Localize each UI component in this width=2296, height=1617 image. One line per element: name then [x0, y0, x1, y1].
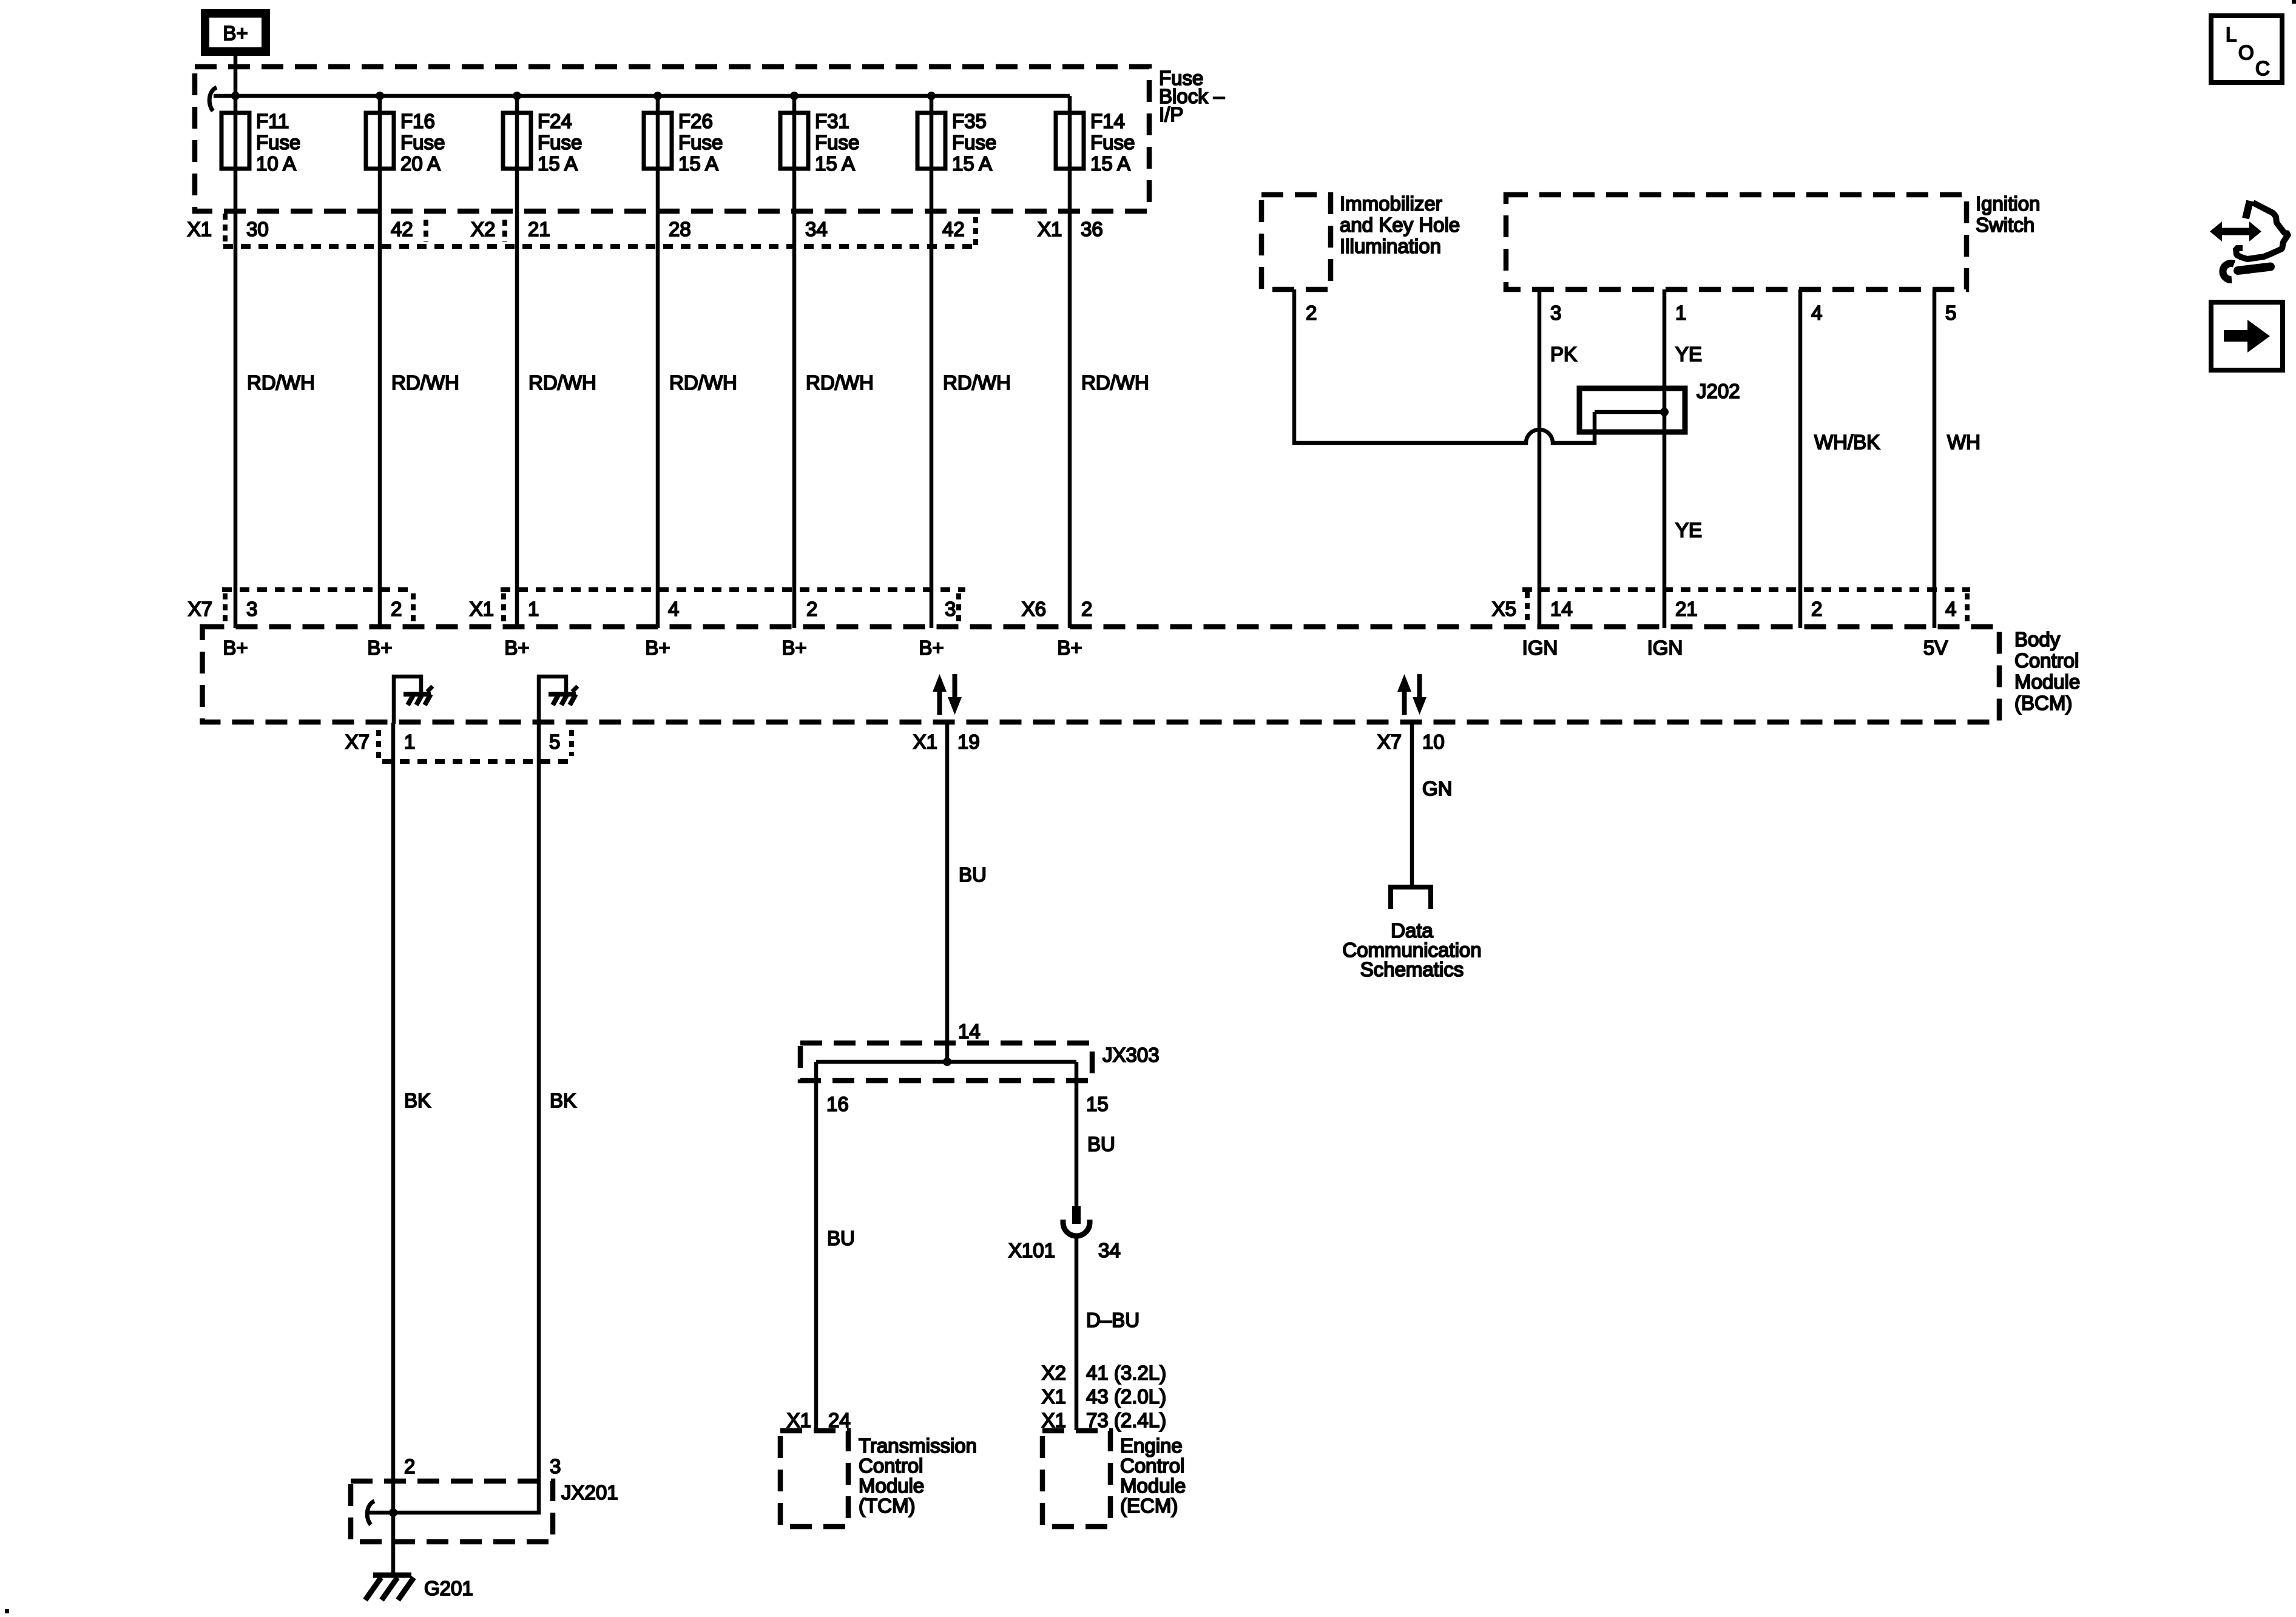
wire WH/BK ignition pin4 to BCM X5-2	[1798, 289, 1803, 628]
fuse F26 15 A	[644, 113, 672, 169]
svg-text:O: O	[2238, 41, 2254, 64]
svg-text:30: 30	[246, 218, 269, 240]
svg-text:15: 15	[1086, 1093, 1109, 1115]
bidirectional arrows at X1 pin19	[937, 690, 942, 715]
page artifact dots	[2292, 0, 2296, 4]
svg-text:Module: Module	[2014, 670, 2080, 693]
svg-text:B+: B+	[223, 22, 248, 44]
svg-text:WH: WH	[1947, 431, 1980, 453]
fuse F35 15 A	[917, 113, 945, 169]
svg-text:X2: X2	[1042, 1362, 1066, 1384]
svg-text:Control: Control	[1120, 1454, 1184, 1477]
svg-text:BU: BU	[959, 863, 987, 886]
svg-text:RD/WH: RD/WH	[247, 371, 315, 394]
svg-text:F11: F11	[256, 110, 289, 132]
wire B+ drop to bus	[234, 56, 238, 96]
svg-text:IGN: IGN	[1522, 636, 1558, 659]
svg-text:3: 3	[945, 598, 956, 620]
svg-text:Fuse: Fuse	[400, 131, 445, 154]
svg-text:X1: X1	[913, 731, 937, 753]
svg-text:B+: B+	[919, 636, 944, 659]
svg-text:B+: B+	[782, 636, 806, 659]
svg-text:36: 36	[1081, 218, 1103, 240]
svg-text:10 A: 10 A	[256, 152, 296, 175]
wire B+ bus	[214, 94, 1070, 98]
wire immobilizer pin2 down	[1292, 289, 1297, 445]
ground G201	[373, 1573, 411, 1578]
svg-text:YE: YE	[1675, 343, 1702, 365]
Transmission Control Module dashed outline	[780, 1431, 848, 1527]
splice curl at bus start	[209, 87, 217, 111]
svg-text:X1: X1	[1042, 1385, 1066, 1408]
junction dot JX303	[943, 1058, 951, 1066]
svg-text:JX201: JX201	[561, 1481, 618, 1504]
junction dot J202	[1660, 408, 1669, 416]
svg-text:G201: G201	[424, 1577, 473, 1599]
Body Control Module dashed outline	[203, 627, 2000, 722]
svg-text:5V: 5V	[1923, 636, 1948, 659]
wire BU from BCM X1-19	[945, 723, 950, 1062]
svg-text:19: 19	[957, 731, 980, 753]
svg-text:RD/WH: RD/WH	[943, 371, 1011, 394]
wire fuse column F11	[234, 96, 238, 628]
wire WH ignition pin5 to BCM X5-4	[1933, 289, 1937, 628]
svg-text:3: 3	[246, 598, 257, 620]
wire BU to TCM	[814, 1062, 819, 1430]
svg-text:X1: X1	[1038, 218, 1062, 240]
svg-text:RD/WH: RD/WH	[528, 371, 596, 394]
svg-text:X7: X7	[345, 731, 370, 753]
wire GN from BCM X7-10	[1410, 723, 1414, 887]
svg-text:(ECM): (ECM)	[1120, 1494, 1178, 1517]
junction dot JX201	[389, 1508, 397, 1517]
wire JX303 internal bus	[816, 1060, 1076, 1064]
svg-text:RD/WH: RD/WH	[391, 371, 459, 394]
svg-text:2: 2	[404, 1455, 415, 1477]
svg-text:Fuse: Fuse	[1090, 131, 1135, 154]
svg-text:X2: X2	[471, 218, 495, 240]
svg-text:42: 42	[942, 218, 965, 240]
svg-text:34: 34	[805, 218, 828, 240]
svg-text:Fuse: Fuse	[538, 131, 582, 154]
svg-text:5: 5	[549, 731, 560, 753]
fuse F11 10 A	[221, 113, 249, 169]
svg-text:16: 16	[826, 1093, 849, 1115]
ground hook inside BCM (X7 pin1)	[394, 677, 421, 724]
svg-text:RD/WH: RD/WH	[1081, 371, 1149, 394]
junction block JX201 dashed outline	[351, 1481, 553, 1542]
svg-text:X1: X1	[470, 598, 494, 620]
svg-text:15 A: 15 A	[678, 152, 718, 175]
wire fuse column F35	[930, 96, 934, 628]
junction block JX303 dashed outline	[800, 1043, 1092, 1081]
svg-text:B+: B+	[645, 636, 670, 659]
svg-text:F35: F35	[952, 110, 987, 132]
svg-text:2: 2	[1811, 598, 1822, 620]
Ignition Switch dashed outline	[1506, 195, 1967, 289]
svg-text:15 A: 15 A	[815, 152, 855, 175]
fuse F14 15 A	[1056, 113, 1084, 169]
icon LOC box	[2211, 16, 2282, 83]
svg-text:14: 14	[1550, 598, 1573, 620]
svg-text:F31: F31	[815, 110, 849, 132]
bidirectional arrows at X7 pin10	[1402, 690, 1407, 715]
svg-text:Fuse: Fuse	[952, 131, 996, 154]
svg-text:41 (3.2L): 41 (3.2L)	[1086, 1362, 1166, 1384]
svg-text:B+: B+	[504, 636, 529, 659]
Immobilizer dashed outline	[1261, 195, 1331, 289]
svg-text:73 (2.4L): 73 (2.4L)	[1086, 1409, 1166, 1431]
svg-text:1: 1	[1675, 302, 1686, 324]
svg-text:Fuse: Fuse	[256, 131, 300, 154]
svg-text:42: 42	[391, 218, 413, 240]
connector dotted line X1/X2	[223, 244, 977, 249]
svg-text:X6: X6	[1022, 598, 1046, 620]
svg-text:Switch: Switch	[1976, 214, 2034, 236]
svg-text:IGN: IGN	[1647, 636, 1683, 659]
svg-text:Engine: Engine	[1120, 1434, 1183, 1457]
svg-text:L: L	[2226, 23, 2237, 46]
svg-text:Schematics: Schematics	[1360, 958, 1464, 981]
svg-text:F26: F26	[678, 110, 713, 132]
svg-text:WH/BK: WH/BK	[1814, 431, 1880, 453]
ground hook inside BCM (X7 pin5)	[539, 677, 566, 724]
svg-text:2: 2	[1081, 598, 1092, 620]
svg-text:PK: PK	[1550, 343, 1577, 365]
wire fuse column F16	[378, 96, 382, 628]
svg-text:15 A: 15 A	[1090, 152, 1130, 175]
svg-text:B+: B+	[367, 636, 392, 659]
icon service hand with wrench	[2246, 201, 2250, 218]
splice pack J202	[1579, 388, 1685, 432]
svg-text:X1: X1	[187, 218, 212, 240]
svg-text:X7: X7	[1377, 731, 1402, 753]
svg-text:BU: BU	[827, 1227, 855, 1249]
svg-text:BU: BU	[1087, 1133, 1115, 1155]
svg-text:GN: GN	[1422, 777, 1453, 800]
svg-text:Module: Module	[1120, 1474, 1186, 1497]
svg-text:YE: YE	[1675, 519, 1702, 541]
svg-text:Transmission: Transmission	[859, 1434, 977, 1457]
splice curl in JX201	[367, 1501, 374, 1525]
svg-text:Illumination: Illumination	[1340, 235, 1441, 257]
svg-text:1: 1	[528, 598, 539, 620]
svg-text:I/P: I/P	[1159, 103, 1183, 126]
svg-text:21: 21	[528, 218, 550, 240]
svg-text:X5: X5	[1492, 598, 1516, 620]
svg-text:Immobilizer: Immobilizer	[1340, 192, 1442, 215]
svg-text:10: 10	[1422, 731, 1445, 753]
wire fuse column F31	[792, 96, 797, 628]
svg-text:2: 2	[1306, 302, 1317, 324]
svg-text:BK: BK	[550, 1089, 576, 1112]
svg-text:F16: F16	[400, 110, 435, 132]
svg-text:(TCM): (TCM)	[859, 1494, 915, 1517]
svg-text:Module: Module	[859, 1474, 924, 1497]
fuse F31 15 A	[780, 113, 808, 169]
svg-text:X101: X101	[1008, 1239, 1055, 1261]
wire BU to X101	[1075, 1062, 1079, 1208]
svg-text:Ignition: Ignition	[1976, 192, 2040, 215]
junction dots on B+ bus	[231, 92, 240, 100]
inline connector X101	[1072, 1206, 1081, 1224]
svg-text:JX303: JX303	[1102, 1044, 1160, 1066]
svg-text:43 (2.0L): 43 (2.0L)	[1086, 1385, 1166, 1408]
svg-text:X7: X7	[188, 598, 212, 620]
svg-text:3: 3	[1550, 302, 1561, 324]
svg-text:Control: Control	[859, 1454, 923, 1477]
svg-text:C: C	[2255, 57, 2270, 79]
svg-text:34: 34	[1098, 1239, 1121, 1261]
svg-text:X1: X1	[1042, 1409, 1066, 1431]
svg-text:and Key Hole: and Key Hole	[1340, 214, 1460, 236]
svg-text:5: 5	[1945, 302, 1956, 324]
svg-text:Fuse: Fuse	[678, 131, 723, 154]
svg-text:D–BU: D–BU	[1086, 1309, 1140, 1331]
wire BK left (X7 pin1 to G201)	[391, 723, 396, 1573]
svg-text:(BCM): (BCM)	[2014, 692, 2072, 714]
svg-text:1: 1	[404, 731, 415, 753]
svg-text:Body: Body	[2014, 628, 2061, 650]
svg-text:28: 28	[669, 218, 691, 240]
svg-text:4: 4	[1945, 598, 1956, 620]
wire D-BU to ECM	[1075, 1234, 1079, 1430]
icon forward arrow box	[2211, 302, 2283, 370]
fuse F24 15 A	[503, 113, 531, 169]
off-page connector to Data Communication Schematics	[1391, 887, 1431, 909]
svg-text:RD/WH: RD/WH	[669, 371, 737, 394]
wire fuse column F26	[656, 96, 660, 628]
fuse block dashed outline	[195, 67, 1149, 211]
svg-text:B+: B+	[1057, 636, 1082, 659]
svg-text:21: 21	[1675, 598, 1698, 620]
svg-text:Fuse: Fuse	[815, 131, 859, 154]
Engine Control Module dashed outline	[1042, 1431, 1110, 1527]
svg-text:4: 4	[668, 598, 679, 620]
svg-text:24: 24	[828, 1409, 851, 1431]
svg-text:F24: F24	[538, 110, 572, 132]
svg-text:3: 3	[550, 1455, 561, 1477]
svg-text:BK: BK	[404, 1089, 431, 1112]
svg-text:RD/WH: RD/WH	[806, 371, 874, 394]
fuse F16 20 A	[366, 113, 394, 169]
svg-text:X1: X1	[787, 1409, 811, 1431]
svg-text:J202: J202	[1697, 380, 1740, 402]
wire PK ignition pin3 to BCM X5-14	[1538, 289, 1542, 628]
svg-text:15 A: 15 A	[952, 152, 992, 175]
svg-text:4: 4	[1811, 302, 1822, 324]
wire fuse column F14	[1068, 96, 1072, 628]
wire BK right (X7 pin5 to JX201)	[369, 723, 539, 1513]
svg-text:2: 2	[806, 598, 817, 620]
svg-text:F14: F14	[1090, 110, 1125, 132]
svg-text:2: 2	[391, 598, 402, 620]
wire fuse column F24	[515, 96, 519, 628]
wire immobilizer pin2 horizontal with hop over PK	[1292, 412, 1595, 443]
svg-text:Control: Control	[2014, 649, 2079, 672]
svg-text:20 A: 20 A	[400, 152, 441, 175]
svg-text:14: 14	[958, 1020, 981, 1042]
svg-text:B+: B+	[223, 636, 248, 659]
svg-text:15 A: 15 A	[538, 152, 578, 175]
B+ battery feed box	[205, 13, 266, 52]
wire YE ignition pin1 to BCM X5-21	[1663, 289, 1667, 628]
